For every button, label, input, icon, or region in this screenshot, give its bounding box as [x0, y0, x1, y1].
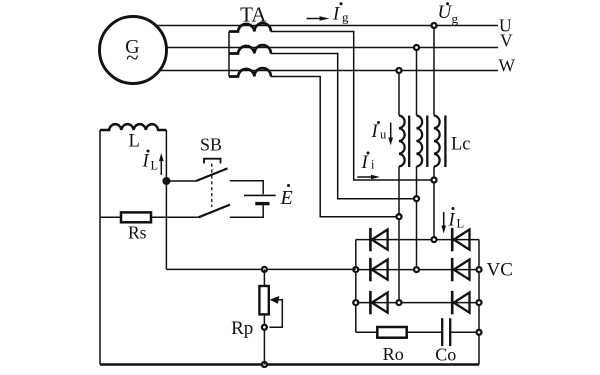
svg-text:L: L [129, 132, 140, 152]
reactor Lc winding 2 [417, 116, 423, 167]
switch SB blade 1 [196, 168, 228, 181]
wire Rp bottom [263, 314, 265, 364]
resistor Ro [377, 327, 406, 338]
svg-text:I: I [142, 152, 150, 172]
svg-text:~: ~ [126, 45, 138, 70]
label Iu [371, 121, 388, 142]
wire Lc winding 1 bottom to bridge row 3 [398, 167, 400, 303]
svg-text:E: E [280, 187, 293, 209]
svg-text:Co: Co [435, 345, 456, 365]
svg-text:I: I [448, 211, 456, 231]
battery E plate long [244, 194, 276, 196]
diode V5 (row2 right) [452, 258, 469, 281]
reactor Lc winding 1 [399, 116, 405, 167]
node winding2/secondaryV junction [414, 196, 419, 201]
node bridge row2 left rail [353, 267, 358, 272]
arrow Ig [307, 16, 330, 21]
svg-text:I: I [371, 122, 379, 142]
svg-text:i: i [371, 158, 375, 172]
svg-text:V: V [500, 30, 513, 50]
wire bridge row 1 [356, 239, 479, 241]
label Ug [438, 2, 459, 26]
resistor Rs [121, 212, 151, 222]
wire TA secondary W to node at Lc winding 1 bottom [271, 77, 399, 217]
node bridge row3 left rail [353, 300, 358, 305]
label IL right [448, 207, 465, 231]
node bridge row2 / winding2 [414, 267, 419, 272]
svg-text:Ro: Ro [383, 344, 404, 364]
wire Lc winding 3 bottom to bridge row 1 [433, 167, 435, 240]
rectifier VC left rail [355, 240, 357, 333]
node bridge row2 right rail [477, 267, 482, 272]
wire TA secondary U to node at Lc winding 3 bottom [271, 32, 434, 181]
svg-text:Rs: Rs [128, 223, 147, 243]
potentiometer Rp wiper [269, 296, 282, 327]
svg-text:L: L [457, 217, 465, 231]
reactor Lc core bar 1 [408, 116, 410, 168]
node Rp top [262, 267, 267, 272]
wire bottom rail [100, 363, 479, 366]
wire Rs line [100, 216, 199, 218]
switch SB blade 2 [199, 205, 230, 218]
inductor L [100, 124, 166, 130]
wire phase V [166, 47, 498, 49]
diode V1 (row1 left) [370, 228, 387, 251]
wire Lc winding 2 bottom to bridge row 2 [416, 167, 418, 270]
generator G [100, 17, 167, 84]
wire U node to Lc winding 3 [433, 26, 435, 116]
svg-text:Rp: Rp [231, 318, 253, 339]
node winding1/secondaryW junction [397, 214, 402, 219]
node bridge row3 right rail [477, 300, 482, 305]
wire node to Rp [263, 269, 265, 286]
arrow Ii [357, 175, 380, 180]
wire junction down to row2 line [166, 268, 355, 270]
switch SB button cap [204, 159, 221, 164]
wire L right side down through junction [165, 130, 167, 269]
wire W node to Lc winding 1 [398, 71, 400, 116]
wire bridge row 3 [356, 302, 479, 304]
wire SB pole1 to battery [230, 181, 263, 195]
node bridge row1 / winding3 [432, 237, 437, 242]
CT TA phase W [229, 68, 271, 76]
label IL left [142, 150, 159, 173]
wire TA secondary V to node at Lc winding 2 bottom [271, 54, 417, 199]
node bottom rail / Rp [262, 362, 267, 367]
svg-text:W: W [499, 55, 516, 75]
diode V4 (row1 right) [452, 228, 469, 251]
wire bridge row 2 [356, 269, 479, 271]
wire Co to right rail [450, 331, 479, 333]
wire battery to SB pole2 [230, 205, 263, 217]
diode V3 (row3 left) [370, 291, 387, 314]
wire TA secondary common bar [228, 32, 230, 77]
capacitor Co [442, 318, 450, 346]
node on phase W [397, 68, 402, 73]
wire V node to Lc winding 2 [416, 48, 418, 116]
wire left vertical branch [99, 130, 101, 365]
reactor Lc winding 3 [434, 116, 440, 167]
svg-text:g: g [452, 11, 459, 26]
node winding3/secondaryU junction [432, 178, 437, 183]
svg-text:I: I [361, 153, 369, 173]
label G [125, 36, 139, 70]
switch SB link (dashed) [211, 164, 213, 208]
wire phase W [160, 70, 498, 72]
wire bridge row 4 left [356, 331, 378, 333]
svg-text:I: I [332, 5, 340, 25]
svg-text:VC: VC [487, 260, 513, 281]
diode V2 (row2 left) [370, 258, 387, 281]
node bridge row3 / winding1 [397, 300, 402, 305]
node on phase V [414, 45, 419, 50]
svg-text:U: U [438, 2, 453, 23]
svg-text:L: L [151, 159, 159, 173]
label Ii [361, 152, 376, 174]
junction dot at L / SB [162, 177, 170, 185]
CT TA phase U [229, 23, 271, 31]
wire phase U [156, 25, 498, 27]
battery E plate short [255, 202, 269, 205]
wire junction to SB pole 1 [166, 180, 196, 182]
arrow IL left [159, 153, 164, 175]
svg-text:Lc: Lc [451, 135, 471, 155]
svg-text:SB: SB [200, 135, 222, 155]
svg-text:u: u [380, 128, 387, 142]
svg-text:g: g [342, 10, 349, 25]
node Ug on phase U [432, 23, 437, 28]
label Ig [332, 2, 349, 24]
arrow IL right [441, 212, 446, 234]
diode V6 (row3 right) [452, 291, 469, 314]
rectifier VC right rail [478, 240, 480, 365]
wire Ro to Co [407, 331, 443, 333]
label E [280, 184, 293, 209]
potentiometer Rp [259, 286, 268, 314]
reactor Lc core bar 2 [426, 116, 428, 168]
arrow Iu [388, 123, 393, 146]
CT TA phase V [229, 45, 271, 53]
node Rp bottom terminal [262, 325, 267, 330]
node right rail row4 [477, 330, 482, 335]
reactor Lc core bar 3 [444, 116, 446, 168]
